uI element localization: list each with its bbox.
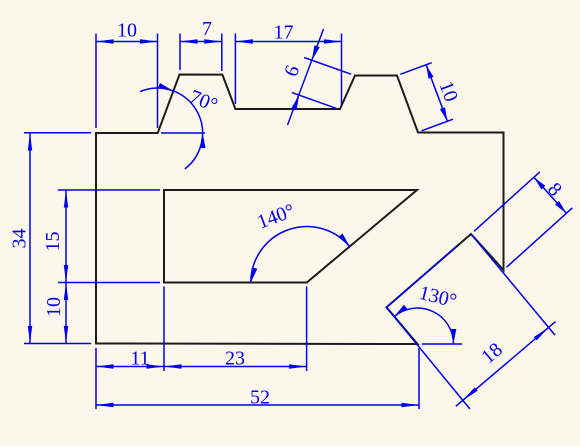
dim 10 slant line	[426, 65, 447, 122]
dim 23 ext line	[306, 287, 308, 372]
svg-text:34: 34	[9, 229, 31, 249]
dim 23 arrows	[164, 364, 307, 368]
dim 34 line	[29, 133, 31, 344]
dim 140 text	[254, 200, 297, 234]
svg-text:15: 15	[42, 232, 64, 252]
dim 15 ext lines	[58, 190, 160, 283]
dim 10 top line	[96, 41, 158, 43]
dim 7 arrows	[180, 39, 222, 43]
dim 6 line	[288, 29, 324, 125]
dim 34 text	[9, 229, 31, 249]
dim 10 top text	[117, 20, 137, 42]
dim 52 ext line	[418, 348, 420, 409]
svg-text:52: 52	[250, 387, 270, 409]
dim 34 ext lines	[24, 133, 91, 344]
rotated rectangle side BC	[471, 234, 555, 335]
dim 10 slant text	[435, 78, 463, 104]
dim 10 top arrows	[96, 39, 158, 43]
dim 140 arc	[251, 227, 350, 283]
dim 10 slant extension lines	[400, 63, 453, 131]
dim 52 text	[250, 387, 270, 409]
dim 7 ext lines	[180, 34, 222, 72]
svg-text:10: 10	[117, 20, 137, 42]
rotated rectangle side AB	[387, 246, 458, 307]
dim 130 ray	[422, 343, 462, 345]
part outline	[96, 75, 504, 345]
rotated rectangle side CD	[456, 322, 556, 407]
dim 17 ext lines	[235, 34, 341, 106]
dim 11 text	[130, 348, 149, 370]
dim 8 extension lines	[474, 172, 572, 267]
dim 34 arrows	[28, 133, 32, 344]
dim 52 line	[96, 404, 419, 406]
dim 15 arrows	[64, 190, 68, 283]
dim 130 arc	[394, 308, 453, 344]
dim 70 text	[186, 86, 220, 117]
dim 70 arc	[140, 88, 202, 169]
dim 15 text	[42, 232, 64, 252]
rotated rectangle side DA	[387, 307, 470, 409]
svg-text:10: 10	[43, 297, 65, 317]
svg-text:7: 7	[202, 18, 212, 40]
svg-text:70°: 70°	[186, 86, 220, 117]
dim 15 line	[65, 190, 67, 283]
dim 140 arrows	[251, 234, 350, 283]
svg-text:18: 18	[477, 339, 506, 369]
dim 17 arrows	[235, 39, 341, 43]
dim 10 left arrows	[64, 283, 68, 344]
svg-text:17: 17	[274, 22, 294, 44]
dim 10 left text	[43, 297, 65, 317]
dim 10 slant arrows	[426, 65, 447, 122]
dim 130 text	[417, 282, 459, 313]
dim 6 text	[280, 63, 304, 80]
dim 23 text	[225, 348, 245, 370]
dim 8 text	[543, 178, 566, 200]
dim 11 line	[96, 366, 164, 368]
dim 17 text	[274, 22, 294, 44]
svg-text:6: 6	[280, 63, 304, 80]
dim 70 arrows	[158, 83, 206, 148]
dim 11 ext lines	[96, 287, 164, 410]
dim 7 text	[202, 18, 212, 40]
dim 6 arrows	[291, 45, 319, 110]
dim 70 ray	[161, 132, 205, 134]
svg-text:11: 11	[130, 348, 149, 370]
inner cutout	[164, 190, 417, 283]
svg-text:23: 23	[225, 348, 245, 370]
dim 8 arrows	[534, 177, 567, 213]
dim 130 arrows	[394, 305, 456, 344]
dim 18 arrows	[463, 327, 549, 400]
dim 23 line	[164, 366, 307, 368]
dim 10 top ext lines	[96, 34, 158, 129]
svg-text:8: 8	[543, 178, 566, 200]
dim 17 line	[235, 41, 341, 43]
svg-text:10: 10	[435, 78, 463, 104]
dim 7 line	[180, 41, 222, 43]
dim 11 arrows	[96, 364, 164, 368]
dim 10 left line	[65, 283, 67, 344]
dim 18 text	[477, 339, 506, 369]
dim 8 line	[534, 177, 567, 213]
dim 6 extension lines	[292, 58, 351, 109]
dim 52 arrows	[96, 403, 419, 407]
